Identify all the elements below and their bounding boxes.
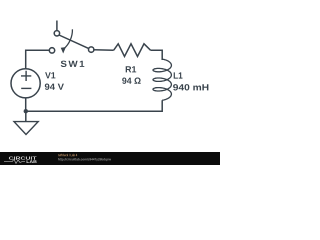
resistor R1 bbox=[114, 44, 151, 57]
wire: inductor bottom to junction bbox=[26, 100, 163, 111]
wire: V1 bottom to junction bbox=[25, 98, 27, 112]
inductor L1 coil bbox=[153, 59, 171, 100]
wire: junction down to ground bbox=[25, 111, 27, 121]
switch SW1 arrow bbox=[64, 29, 72, 48]
switch SW1 right terminal bbox=[89, 47, 94, 52]
switch SW1 blade bbox=[59, 35, 89, 49]
footer logo LAB bbox=[27, 160, 37, 163]
footer url text bbox=[58, 158, 111, 161]
label L1 bbox=[174, 72, 183, 78]
V1 plus sign bbox=[21, 71, 31, 81]
label V1 bbox=[45, 72, 55, 78]
switch SW1 top terminal bbox=[54, 31, 59, 36]
switch SW1 left terminal bbox=[49, 48, 54, 53]
switch SW1 top stub bbox=[56, 21, 58, 31]
label V1 value bbox=[45, 84, 64, 90]
node junction dot bbox=[24, 109, 28, 113]
footer logo CIRCUIT bbox=[9, 156, 37, 159]
wire: switch right to resistor bbox=[93, 49, 113, 52]
label R1 bbox=[126, 66, 137, 72]
ground bbox=[14, 122, 38, 135]
wire: V1 top to switch left bbox=[26, 50, 50, 69]
wire: resistor to inductor top bbox=[151, 50, 163, 60]
footer bar bbox=[0, 0, 220, 165]
footer logo squiggle bbox=[4, 159, 25, 163]
label SW1 bbox=[61, 61, 85, 67]
V1 minus sign bbox=[21, 87, 31, 89]
label L1 value bbox=[173, 84, 208, 90]
voltage source V1 bbox=[11, 69, 40, 98]
label R1 value bbox=[122, 78, 141, 84]
footer title text bbox=[58, 154, 77, 156]
